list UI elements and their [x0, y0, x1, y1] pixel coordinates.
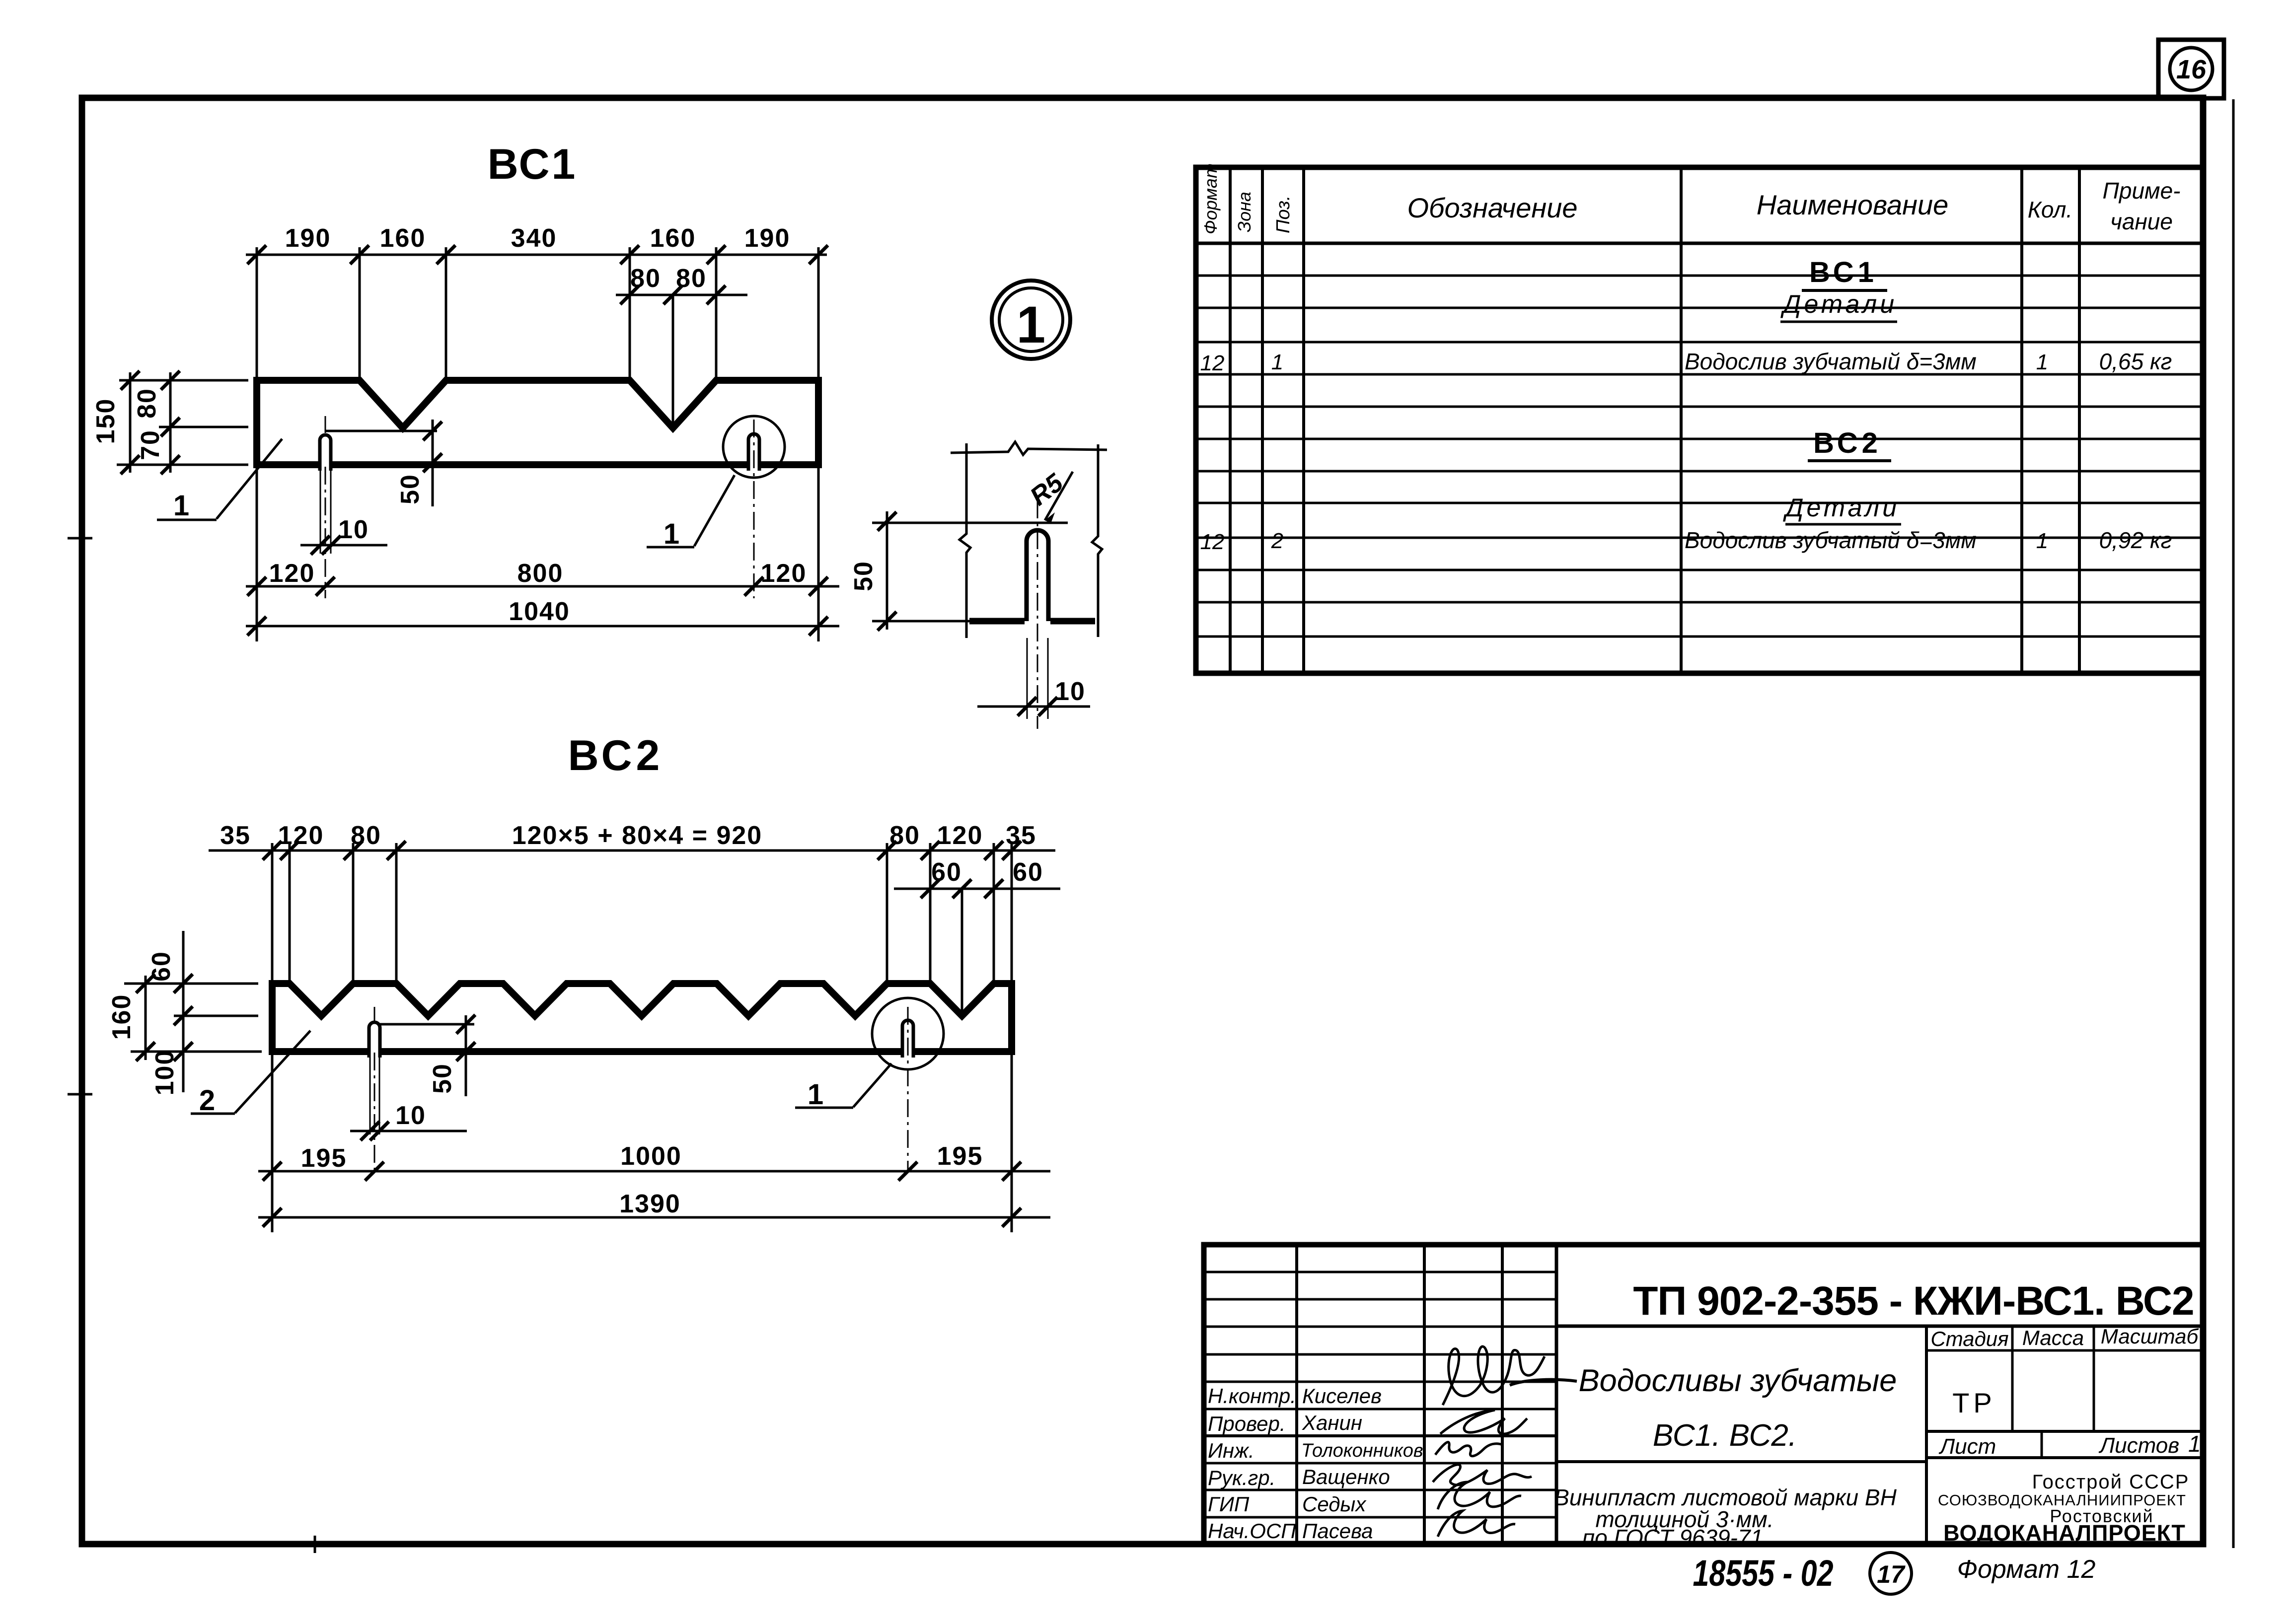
- svg-text:Обозначение: Обозначение: [1407, 192, 1577, 223]
- svg-text:Водослив зубчатый δ=3мм: Водослив зубчатый δ=3мм: [1685, 527, 1977, 553]
- svg-text:16: 16: [2176, 55, 2207, 84]
- svg-text:190: 190: [285, 224, 331, 253]
- svg-text:0,65 кг: 0,65 кг: [2099, 349, 2172, 374]
- slot centerline: [1037, 500, 1038, 729]
- detail dim 50: [849, 511, 1068, 630]
- svg-text:ТП 902-2-355 - КЖИ-ВС1. ВС2: ТП 902-2-355 - КЖИ-ВС1. ВС2: [1633, 1278, 2194, 1324]
- BC2 overall dimension 1390: [258, 1216, 1050, 1219]
- svg-text:по ГОСТ 9639-71: по ГОСТ 9639-71: [1582, 1525, 1763, 1551]
- svg-text:195: 195: [937, 1142, 983, 1171]
- right break line: [1092, 444, 1102, 637]
- sheet number box top right: [2158, 40, 2224, 98]
- top break line: [951, 442, 1107, 455]
- svg-text:60: 60: [1013, 858, 1043, 887]
- svg-text:800: 800: [517, 559, 564, 588]
- plate BC1 outline with two V-notches: [257, 380, 818, 465]
- svg-text:1000: 1000: [620, 1142, 682, 1171]
- table column line Обозначение/Наименование: [1680, 167, 1683, 673]
- svg-text:1: 1: [1271, 350, 1283, 374]
- dimension ticks BC2: [136, 841, 1021, 1227]
- table column line Формат: [1229, 167, 1232, 673]
- svg-text:ГИП: ГИП: [1208, 1492, 1250, 1516]
- svg-text:Поз.: Поз.: [1273, 196, 1294, 233]
- svg-text:Седых: Седых: [1302, 1492, 1367, 1516]
- stamp row lines: [1204, 1271, 1556, 1273]
- BC2 bottom dimension line 195 1000 195: [258, 1054, 1050, 1232]
- svg-text:190: 190: [744, 224, 791, 253]
- svg-text:1390: 1390: [619, 1190, 681, 1218]
- svg-text:ВС2: ВС2: [1813, 427, 1882, 459]
- svg-text:Рук.гр.: Рук.гр.: [1208, 1466, 1275, 1489]
- svg-text:0,92 кг: 0,92 кг: [2099, 527, 2172, 553]
- BC2 top dimension line 35 120 80 920 80 120 35: [209, 843, 1055, 981]
- slit 2 of BC1 with detail circle: [723, 416, 785, 598]
- svg-text:Ващенко: Ващенко: [1302, 1465, 1390, 1488]
- svg-text:Детали: Детали: [1783, 494, 1900, 522]
- frame centering tick bottom: [314, 1536, 316, 1553]
- svg-text:70: 70: [136, 429, 165, 460]
- svg-text:17: 17: [1877, 1560, 1906, 1588]
- svg-text:10: 10: [395, 1101, 426, 1130]
- slot edge extensions below: [1027, 638, 1028, 719]
- BC2 left side dimensions 60 160 100: [124, 931, 262, 1092]
- svg-text:Киселев: Киселев: [1302, 1384, 1382, 1408]
- svg-text:Кол.: Кол.: [2028, 197, 2072, 222]
- BC1 overall dimension 1040: [246, 625, 839, 628]
- BC2 dimension 50 slot height: [377, 1015, 474, 1096]
- BC1 dimension 50 slot height: [325, 420, 437, 506]
- detail callout circle 1: [992, 281, 1070, 359]
- svg-text:Масштаб: Масштаб: [2101, 1325, 2199, 1348]
- BC1 left side dimensions 150 80 70: [117, 372, 248, 473]
- leader 2 BC2: [191, 1031, 310, 1117]
- svg-text:340: 340: [511, 224, 557, 253]
- plate BC2 outline with seven V-notches: [272, 984, 1012, 1052]
- signature Ханин: [1440, 1410, 1527, 1434]
- svg-text:160: 160: [107, 994, 136, 1040]
- svg-text:Лист: Лист: [1938, 1434, 1996, 1459]
- BC1 dimension 80 80 over right notch: [616, 295, 747, 426]
- svg-text:120: 120: [761, 559, 807, 588]
- svg-text:ВС2: ВС2: [568, 732, 664, 779]
- BC1 bottom dimension line 120 800 120: [246, 467, 839, 641]
- svg-text:1: 1: [1017, 296, 1045, 354]
- svg-text:Пасева: Пасева: [1302, 1519, 1373, 1543]
- table column line Примечание: [2078, 167, 2081, 673]
- svg-text:50: 50: [396, 474, 425, 504]
- slit 1 of BC2: [369, 1007, 380, 1173]
- signature Толоконников: [1435, 1442, 1503, 1456]
- svg-text:12: 12: [1200, 530, 1225, 554]
- svg-text:ВС1: ВС1: [488, 141, 578, 188]
- svg-text:Ханин: Ханин: [1302, 1411, 1362, 1434]
- svg-text:1040: 1040: [509, 597, 570, 626]
- svg-text:Масса: Масса: [2022, 1326, 2084, 1349]
- svg-text:50: 50: [849, 561, 878, 591]
- table header bottom line: [1196, 242, 2203, 245]
- svg-text:Госстрой СССР: Госстрой СССР: [2032, 1471, 2190, 1493]
- svg-text:1: 1: [664, 518, 679, 550]
- svg-text:Листов: Листов: [2098, 1433, 2179, 1458]
- slit 2 of BC2 with detail circle: [872, 998, 944, 1173]
- svg-text:ВС1. ВС2.: ВС1. ВС2.: [1653, 1418, 1797, 1453]
- svg-text:ВС1: ВС1: [1809, 256, 1878, 288]
- table column line Зона: [1261, 167, 1264, 673]
- svg-text:120: 120: [937, 821, 983, 850]
- svg-text:18555 - 02: 18555 - 02: [1693, 1553, 1833, 1594]
- svg-text:Приме-: Приме-: [2103, 178, 2181, 204]
- svg-text:2: 2: [199, 1084, 215, 1117]
- svg-text:50: 50: [428, 1063, 457, 1094]
- svg-text:чание: чание: [2110, 209, 2173, 234]
- table outer border: [1196, 167, 2203, 673]
- svg-text:35: 35: [1006, 821, 1036, 850]
- svg-text:Провер.: Провер.: [1208, 1412, 1286, 1435]
- right part division lines: [1556, 1325, 2203, 1328]
- sheet outer edge line right: [2232, 99, 2235, 1548]
- svg-text:1: 1: [2188, 1431, 2201, 1457]
- table column line Кол: [2020, 167, 2023, 673]
- BC1 dimension 10 slot width: [300, 544, 387, 547]
- dimension ticks BC1: [121, 245, 1057, 716]
- table entry Детали heading 2: [1783, 494, 1901, 524]
- table row lines: [1196, 275, 2203, 277]
- svg-text:150: 150: [91, 398, 120, 444]
- svg-text:160: 160: [380, 224, 426, 253]
- svg-text:Наименование: Наименование: [1757, 189, 1948, 220]
- frame centering tick left upper: [68, 537, 92, 540]
- leader 1 BC2: [795, 1063, 891, 1111]
- frame centering tick left lower: [68, 1093, 92, 1096]
- svg-text:120: 120: [278, 821, 324, 850]
- svg-text:Зона: Зона: [1234, 192, 1255, 232]
- svg-text:1: 1: [2036, 350, 2048, 374]
- signature Киселев: [1443, 1346, 1545, 1405]
- signature Седых: [1438, 1482, 1521, 1509]
- footer page circle 17: [1870, 1553, 1912, 1594]
- bottom plate edge thick: [969, 618, 1025, 625]
- left break line: [959, 443, 970, 638]
- svg-text:ВОДОКАНАЛПРОЕКТ: ВОДОКАНАЛПРОЕКТ: [1943, 1520, 2186, 1546]
- svg-text:Формат 12: Формат 12: [1957, 1555, 2096, 1584]
- table entry BC1 heading: [1802, 256, 1887, 290]
- svg-text:80: 80: [133, 388, 161, 419]
- stamp column lines: [1295, 1245, 1298, 1544]
- detail view fragment: [872, 442, 1107, 729]
- leader 1 right BC1: [647, 475, 735, 550]
- signature Ващенко: [1433, 1465, 1532, 1485]
- signature Пасева: [1438, 1511, 1515, 1537]
- svg-text:100: 100: [150, 1050, 179, 1096]
- svg-text:Н.контр.: Н.контр.: [1208, 1384, 1296, 1408]
- table row item 2: [1200, 527, 2172, 554]
- svg-text:Стадия: Стадия: [1930, 1327, 2008, 1350]
- table column line Поз: [1302, 167, 1305, 673]
- svg-text:Водосливы зубчатые: Водосливы зубчатые: [1579, 1363, 1897, 1398]
- svg-text:120: 120: [269, 559, 315, 588]
- svg-text:2: 2: [1271, 529, 1283, 553]
- slot walls with rounded top R5: [1027, 530, 1048, 621]
- svg-text:Формат: Формат: [1200, 163, 1221, 234]
- svg-text:10: 10: [1055, 677, 1086, 706]
- svg-text:80: 80: [351, 821, 381, 850]
- table entry Детали heading: [1780, 290, 1897, 322]
- svg-text:1: 1: [173, 490, 189, 522]
- svg-text:195: 195: [301, 1144, 347, 1173]
- svg-text:Толоконников: Толоконников: [1301, 1440, 1423, 1461]
- svg-text:Водослив зубчатый δ=3мм: Водослив зубчатый δ=3мм: [1685, 349, 1977, 374]
- svg-text:1: 1: [2036, 529, 2048, 553]
- title block outer border: [1204, 1245, 2203, 1544]
- svg-text:12: 12: [1200, 351, 1225, 375]
- svg-text:ТР: ТР: [1952, 1387, 1996, 1418]
- detail dim 10: [977, 677, 1090, 706]
- BC1 top dimension line 190 160 340 160 190: [246, 247, 827, 377]
- svg-text:35: 35: [220, 821, 251, 850]
- svg-text:160: 160: [650, 224, 696, 253]
- table entry BC2 heading: [1808, 427, 1891, 461]
- svg-text:120×5 + 80×4 = 920: 120×5 + 80×4 = 920: [512, 821, 762, 850]
- svg-text:Инж.: Инж.: [1208, 1439, 1255, 1462]
- table row item 1: [1200, 349, 2172, 375]
- svg-text:10: 10: [338, 515, 369, 544]
- leader 1 left BC1: [157, 439, 282, 522]
- slit 1 of BC1 (slot near left): [320, 416, 331, 598]
- svg-text:Нач.ОСП: Нач.ОСП: [1208, 1519, 1296, 1543]
- svg-text:1: 1: [808, 1078, 823, 1111]
- svg-text:Детали: Детали: [1780, 290, 1897, 319]
- label R5 with leader: [1025, 468, 1073, 523]
- BC2 dimension 60 60 right notch: [894, 889, 1060, 1014]
- BC2 dimension 10 slot width: [350, 1130, 467, 1132]
